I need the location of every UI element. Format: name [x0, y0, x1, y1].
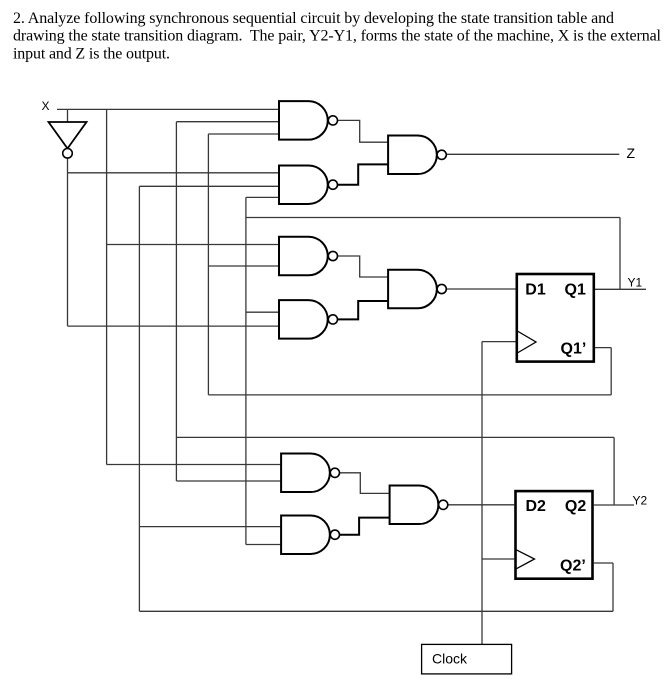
wire Y1 feedback horizontal	[246, 217, 620, 219]
svg-text:Q2’: Q2’	[560, 557, 586, 574]
nand gate G5	[279, 300, 328, 339]
svg-text:Clock: Clock	[432, 651, 468, 667]
clock source box	[422, 644, 512, 674]
wire Y2 to gate G6 pin 2	[176, 480, 281, 482]
wire Q2' feedback bottom horizontal	[139, 610, 613, 612]
wire Q1' to gate G4 pin 2	[208, 265, 279, 267]
nand gate G8 (feeds D1)	[388, 270, 437, 309]
flip-flop U2 clock triangle	[516, 550, 535, 569]
wire gate G8 output to D1	[446, 288, 515, 290]
wire Q2' pin stub	[594, 562, 613, 564]
wire Q1' feedback vertical	[610, 348, 612, 395]
wire gate G5 output jog to gate G8 pin 2	[338, 301, 389, 319]
nand gate G9 bubble	[439, 500, 448, 509]
wire gate G1 output jog to gate G3 pin 1	[338, 120, 389, 142]
wire Y1 to gate G5 pin 1	[246, 311, 279, 313]
nand gate G3 (Z output gate)	[388, 136, 437, 175]
wire Q1' pin stub	[595, 347, 611, 349]
wire inverter output vertical (X')	[67, 158, 69, 326]
nand gate G2 bubble	[328, 180, 337, 189]
wire X' to gate G2 pin 1	[68, 172, 280, 174]
nand gate G5 bubble	[328, 315, 337, 324]
nand gate G7 bubble	[330, 530, 339, 539]
flip-flop U1 clock triangle	[517, 331, 536, 353]
svg-text:D1: D1	[525, 282, 546, 299]
wire Q2 output to Y2 stub	[594, 504, 634, 506]
nand gate G7	[281, 515, 330, 554]
svg-text:X: X	[42, 99, 50, 113]
wire X' to gate G5 pin 2	[68, 325, 280, 327]
wire gate G2 output jog to gate G3 pin 2	[338, 164, 389, 184]
wire Y2 net vertical column	[175, 122, 177, 481]
wire Z output from gate G3	[446, 153, 619, 155]
wire Q2' net vertical column	[138, 186, 140, 611]
wire gate G4 output jog to gate G8 pin 1	[338, 256, 389, 277]
nand gate G3 bubble	[437, 150, 446, 159]
wire Y2 feedback vertical from Q2	[613, 437, 615, 505]
svg-text:Z: Z	[627, 145, 636, 161]
wire X vertical branch left column	[106, 109, 108, 464]
svg-text:Y2: Y2	[633, 494, 648, 508]
wire Y1 to gate G7 pin 2	[246, 544, 281, 546]
wire Q1 output to Y1 stub	[595, 288, 646, 290]
inverter output bubble	[63, 149, 73, 159]
svg-text:input and Z is the output.: input and Z is the output.	[13, 45, 170, 62]
wire Q1' to gate G1 pin 3	[208, 133, 279, 135]
wire Y1 net vertical column	[245, 197, 247, 544]
nand gate G1 (3-input, top)	[279, 101, 328, 139]
nand gate G4	[279, 237, 328, 276]
wire Q2' feedback vertical	[612, 563, 614, 611]
wire gate G6 output jog to gate G9 pin 1	[339, 473, 389, 494]
flip-flop U2 box	[516, 491, 593, 579]
svg-text:Y1: Y1	[628, 276, 643, 290]
wire Y1 to gate G2 pin 3	[246, 196, 279, 198]
wire gate G7 output jog to gate G9 pin 2	[339, 518, 389, 535]
nand gate G6 bubble	[330, 468, 339, 477]
nand gate G4 bubble	[328, 251, 337, 260]
wire clock to FF2 clock pin	[482, 558, 514, 560]
wire Q1' feedback horizontal	[208, 394, 611, 396]
wire Y2 to gate G1 pin 2	[176, 121, 279, 123]
nand gate G8 bubble	[437, 284, 446, 293]
nand gate G1 bubble	[328, 116, 337, 125]
wire X to gate G4 pin 1	[107, 244, 279, 246]
nand gate G2 (3-input)	[279, 165, 328, 204]
svg-text:Q2: Q2	[565, 498, 586, 515]
nand gate G6	[281, 454, 330, 493]
nand gate G9 (feeds D2)	[390, 486, 439, 525]
wire Y1 feedback vertical from Q1	[619, 218, 621, 290]
inverter on X	[49, 122, 87, 149]
svg-text:Q1: Q1	[565, 282, 586, 299]
wire X branch down to inverter input	[67, 109, 69, 122]
wire clock to FF1 clock pin	[482, 341, 516, 343]
svg-text:2. Analyze following synchrono: 2. Analyze following synchronous sequent…	[13, 10, 614, 27]
svg-text:drawing the state transition d: drawing the state transition diagram. Th…	[13, 28, 662, 45]
svg-text:Q1’: Q1’	[561, 341, 587, 358]
wire X input horizontal to gate G1 pin 1	[57, 108, 279, 110]
wire Y2 feedback horizontal	[176, 436, 614, 438]
svg-text:D2: D2	[526, 498, 547, 515]
wire gate G9 output to D2	[448, 504, 514, 506]
wire Q2' to gate G2 pin 2	[139, 185, 279, 187]
wire clock vertical	[481, 342, 483, 645]
wire X to gate G6 pin 1	[107, 464, 282, 466]
wire Q2' to gate G7 pin 1	[139, 526, 281, 528]
wire Q1' net vertical column	[207, 134, 209, 395]
flip-flop U1 box	[517, 274, 594, 362]
